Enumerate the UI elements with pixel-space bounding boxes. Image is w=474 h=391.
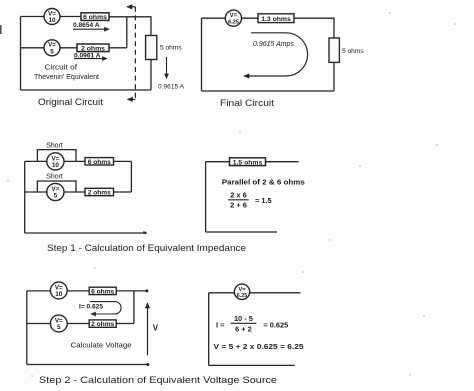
svg-text:V=: V= [238, 287, 246, 293]
svg-text:I =: I = [216, 321, 225, 330]
dashed cut line a-a' [127, 7, 135, 100]
terminal dot bottom [146, 363, 149, 366]
source V5b V=5 [47, 183, 64, 200]
svg-text:V: V [153, 324, 159, 333]
wire left bus original circuit [20, 17, 22, 91]
svg-text:2 ohms: 2 ohms [91, 321, 114, 328]
svg-text:2 + 6: 2 + 6 [230, 201, 247, 210]
svg-text:6 ohms: 6 ohms [83, 14, 107, 21]
wire R4 to right corner down to R5 [294, 18, 334, 38]
svg-text:Step 1 - Calculation of Equiva: Step 1 - Calculation of Equivalent Imped… [47, 243, 246, 254]
cut line top arrow [127, 6, 135, 8]
wire lower branch to V5b [25, 191, 47, 193]
formula I = (10-5)/(6+2) = 0.625 [216, 314, 288, 334]
wire R5 bottom to rail [333, 62, 335, 91]
svg-text:Parallel of 2 & 6 ohms: Parallel of 2 & 6 ohms [222, 178, 305, 187]
wire R10 to junction [116, 323, 134, 325]
curved current loop arrow [244, 33, 308, 76]
wire R7 to right bus [114, 191, 132, 193]
svg-text:0.9615 Amps: 0.9615 Amps [253, 41, 294, 48]
svg-text:1.3 ohms: 1.3 ohms [261, 16, 291, 23]
svg-text:10 - 5: 10 - 5 [234, 314, 253, 323]
svg-text:I= 0.625: I= 0.625 [79, 303, 103, 310]
svg-text:Final Circuit: Final Circuit [220, 98, 274, 109]
wire junction node A vertical [126, 17, 128, 48]
voltage arrow V [147, 303, 149, 355]
svg-text:Calculate Voltage: Calculate Voltage [71, 341, 132, 350]
wire left bus step1 [24, 161, 26, 233]
source V7 V=5 [50, 315, 67, 332]
svg-text:10: 10 [48, 17, 56, 24]
svg-text:10: 10 [52, 162, 60, 169]
terminal dot top [145, 289, 148, 292]
wire V6 to R9 [67, 290, 89, 292]
wire R6 to right bus [114, 160, 132, 162]
source V3 V=6.25 [225, 10, 241, 26]
source V6 V=10 [50, 282, 67, 299]
wire V7 to R10 [67, 323, 89, 325]
svg-text:V = 5 + 2 x 0.625 = 6.25: V = 5 + 2 x 0.625 = 6.25 [214, 342, 304, 351]
wire R3 bottom to rail [150, 60, 152, 91]
wire V2 to R2 [60, 47, 77, 49]
wire V3 to R4 [242, 17, 259, 19]
wire left side result box [205, 162, 207, 232]
svg-text:2 ohms: 2 ohms [88, 190, 111, 197]
wire top to V3 [202, 17, 226, 19]
current label 0.0961 A with arrow [74, 52, 107, 59]
wire right bus step1 [130, 161, 132, 192]
current label 0.8654 A with arrow [73, 22, 109, 29]
wire R9 to top terminal [116, 290, 146, 292]
label Circuit of Thevenin Equivalent [34, 65, 99, 82]
wire bottom of result2 box [209, 364, 295, 366]
svg-text:6.25: 6.25 [237, 293, 248, 299]
wire top to R8 [206, 161, 230, 163]
resistor R9 6 ohms [89, 287, 116, 295]
resistor R7 2 ohms [85, 188, 114, 196]
wire top left of V8 [209, 292, 235, 294]
wire lower branch to V7 [27, 323, 51, 325]
short loop over V5b [37, 181, 76, 192]
svg-text:Original Circuit: Original Circuit [38, 97, 103, 108]
svg-text:2 x 6: 2 x 6 [230, 191, 246, 200]
svg-text:6 ohms: 6 ohms [91, 288, 114, 295]
source V1 V=10 [44, 9, 60, 25]
svg-text:Thevenin' Equivalent: Thevenin' Equivalent [34, 74, 99, 81]
svg-text:10: 10 [55, 291, 63, 298]
svg-text:5 ohms: 5 ohms [342, 48, 364, 55]
source V2 V=5 [44, 40, 60, 56]
svg-text:= 1.5: = 1.5 [255, 196, 272, 205]
source V4 V=10 [47, 153, 64, 170]
svg-text:Step 2 - Calculation of Equiva: Step 2 - Calculation of Equivalent Volta… [39, 375, 277, 386]
wire bottom of result box [206, 231, 277, 233]
wire mid branch to V2 [21, 47, 45, 49]
svg-text:0.8654 A: 0.8654 A [73, 22, 100, 29]
resistor R2 2 ohms [77, 44, 109, 52]
resistor R8 1.5 ohms [230, 158, 266, 167]
svg-text:= 0.625: = 0.625 [263, 321, 288, 330]
resistor R4 1.3 ohms [258, 14, 294, 23]
svg-text:5: 5 [57, 324, 61, 331]
svg-text:Circuit of: Circuit of [45, 65, 78, 72]
wire bottom rail final circuit [202, 90, 335, 92]
U-turn current arrow I [90, 302, 121, 314]
wire V5b to R7 [64, 191, 85, 193]
wire R2 to node A [109, 47, 127, 49]
resistor R5 5 ohms vertical [329, 38, 364, 62]
wire V4 to R6 [64, 160, 85, 162]
wire top branch to V4 [25, 160, 47, 162]
svg-text:1.5 ohms: 1.5 ohms [233, 159, 263, 166]
wire top branch to V1 [21, 16, 45, 18]
wire left bus step2 [26, 291, 28, 365]
svg-text:5: 5 [54, 193, 58, 200]
svg-text:0.9615 A: 0.9615 A [158, 84, 185, 91]
source V8 V=6.25 [234, 284, 249, 299]
svg-text:5 ohms: 5 ohms [160, 45, 182, 52]
svg-text:6 ohms: 6 ohms [88, 159, 111, 166]
short loop over V4 [37, 150, 76, 162]
rail end tick [143, 231, 147, 234]
svg-text:6 + 2: 6 + 2 [235, 325, 252, 334]
wire junction vertical step2 [133, 291, 135, 324]
wire R8 to right end [265, 161, 298, 163]
resistor R10 2 ohms [89, 320, 116, 328]
wire top branch to V6 [27, 290, 51, 292]
resistor R6 6 ohms [85, 158, 114, 166]
wire R1 to top-right corner and down to R3 [109, 17, 151, 36]
wire top right of V8 [250, 292, 301, 294]
wire left bus final circuit [201, 18, 203, 91]
current arrow 0.9615 A [158, 57, 185, 91]
svg-text:6.25: 6.25 [228, 20, 239, 26]
wire bottom rail original circuit [21, 89, 151, 91]
wire bottom open rail step1 [25, 232, 146, 234]
resistor R1 6 ohms [81, 13, 109, 21]
cut line bottom arrow [128, 98, 136, 100]
resistor R3 5 ohms vertical [146, 36, 183, 60]
wire bottom rail step2 [27, 364, 148, 366]
svg-text:Short: Short [46, 173, 63, 180]
wire V1 to R1 [60, 16, 81, 18]
text parallel formula [222, 178, 305, 210]
wire left side result2 box [208, 293, 210, 366]
svg-text:Short: Short [46, 142, 63, 149]
svg-text:5: 5 [50, 49, 54, 56]
svg-text:V=: V= [230, 13, 238, 19]
